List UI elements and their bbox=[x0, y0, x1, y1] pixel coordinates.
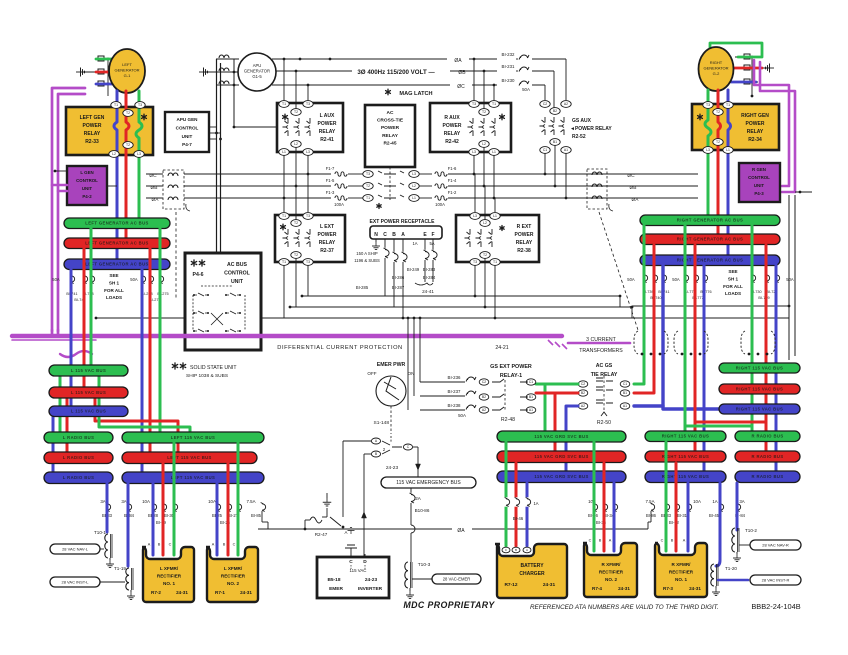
svg-text:L RADIO BUS: L RADIO BUS bbox=[63, 455, 95, 460]
svg-text:BI-85: BI-85 bbox=[251, 513, 262, 518]
terminal B2 gs ext bbox=[479, 394, 489, 400]
wire left gen feeders down red bbox=[126, 91, 129, 243]
svg-text:RIGHT 115 VAC BUS: RIGHT 115 VAC BUS bbox=[736, 406, 783, 411]
label 24-41 bbox=[415, 283, 433, 285]
wire blue rectR1 bbox=[687, 483, 690, 551]
svg-text:C1: C1 bbox=[529, 380, 533, 384]
svg-text:P4-7: P4-7 bbox=[182, 142, 192, 147]
svg-text:L2: L2 bbox=[482, 142, 486, 146]
terminal T1 upper L ext bbox=[279, 213, 289, 220]
svg-text:T3: T3 bbox=[706, 103, 710, 107]
svg-text:P4-2: P4-2 bbox=[82, 194, 92, 199]
terminal L3 right gen relay bbox=[703, 147, 713, 154]
svg-text:BI-236: BI-236 bbox=[448, 375, 461, 380]
terminal T3 L aux bbox=[303, 101, 313, 108]
svg-text:R2-34: R2-34 bbox=[748, 137, 762, 143]
svg-text:F1-4: F1-4 bbox=[448, 178, 457, 183]
bus left 115vac ØA blue bbox=[49, 406, 128, 417]
svg-text:L XFMR/: L XFMR/ bbox=[160, 566, 179, 571]
svg-text:T10-1: T10-1 bbox=[94, 530, 106, 535]
svg-text:N: N bbox=[374, 232, 378, 238]
svg-text:B1: B1 bbox=[529, 395, 533, 399]
terminal tie relay right green bbox=[620, 381, 630, 387]
terminal T1 right gen relay bbox=[723, 102, 733, 109]
svg-text:C2: C2 bbox=[482, 380, 486, 384]
ground T10-1 bbox=[109, 558, 111, 560]
svg-text:ØA: ØA bbox=[457, 528, 465, 534]
svg-text:R7-3: R7-3 bbox=[663, 586, 673, 591]
svg-text:L1: L1 bbox=[282, 150, 286, 154]
svg-text:50A: 50A bbox=[130, 277, 138, 282]
svg-text:EXT POWER RECEPTACLE: EXT POWER RECEPTACLE bbox=[370, 219, 436, 225]
wire right frame verticals bbox=[788, 195, 790, 360]
contacts right generator CT cluster bbox=[735, 56, 762, 58]
svg-text:24-31: 24-31 bbox=[618, 586, 630, 591]
wire black BI-85 to ØA bbox=[261, 511, 263, 522]
terminal T2 R aux bbox=[479, 109, 489, 116]
svg-text:POWER: POWER bbox=[318, 121, 337, 127]
terminal T2 L aux bbox=[291, 109, 301, 116]
svg-text:ØA: ØA bbox=[454, 58, 462, 64]
svg-text:B1: B1 bbox=[553, 140, 557, 144]
svg-text:CONTROL: CONTROL bbox=[176, 125, 199, 130]
svg-text:RELAY: RELAY bbox=[516, 240, 533, 246]
svg-text:T2: T2 bbox=[366, 184, 370, 188]
svg-text:R2-42: R2-42 bbox=[445, 139, 459, 145]
terminal C2 GS aux bbox=[540, 101, 550, 108]
svg-text:L3: L3 bbox=[306, 150, 310, 154]
svg-text:C: C bbox=[589, 539, 592, 543]
svg-text:A2: A2 bbox=[482, 408, 486, 412]
rectifier R xfmr no2 R7-4 bbox=[583, 543, 637, 597]
terminal tie relay right red bbox=[620, 390, 630, 396]
svg-text:150 A SHIP: 150 A SHIP bbox=[356, 251, 378, 256]
generator right G-2 bbox=[699, 47, 734, 91]
svg-text:T1: T1 bbox=[492, 102, 496, 106]
current transformers right phase bbox=[587, 169, 607, 209]
svg-text:BI-237: BI-237 bbox=[448, 389, 461, 394]
svg-text:T3: T3 bbox=[472, 102, 476, 106]
bus left 115vac wide blue bbox=[122, 472, 264, 484]
svg-text:L 115 VAC BUS: L 115 VAC BUS bbox=[71, 368, 106, 373]
bus col1 green 115 vac grd svc bbox=[497, 431, 626, 442]
wire blue left B to C bbox=[52, 416, 55, 477]
terminal T1 left gen relay bbox=[111, 102, 121, 109]
svg-text:MAG LATCH: MAG LATCH bbox=[399, 91, 432, 97]
wire red battery feed bbox=[515, 463, 518, 546]
svg-text:◄POWER RELAY: ◄POWER RELAY bbox=[570, 126, 612, 132]
svg-text:APU GEN: APU GEN bbox=[177, 117, 199, 122]
bus left 115vac ØB red bbox=[49, 387, 128, 398]
pill 28 VAC INST-R bbox=[718, 579, 748, 582]
terminal L2 L aux bbox=[291, 141, 301, 148]
svg-text:BI-284: BI-284 bbox=[423, 275, 436, 280]
svg-text:C: C bbox=[661, 539, 664, 543]
terminal T1 lower L ext bbox=[279, 259, 289, 266]
terminal L1 cross-tie bbox=[409, 195, 419, 202]
wire APU phase stubs bbox=[234, 58, 239, 60]
wire blue T1-20 feed bbox=[716, 483, 720, 566]
node ØA top label bbox=[447, 54, 469, 63]
svg-text:BI-285: BI-285 bbox=[356, 285, 369, 290]
svg-text:RELAY: RELAY bbox=[319, 129, 336, 135]
wire gs ext feeds bbox=[419, 318, 421, 382]
svg-text:24-31: 24-31 bbox=[240, 590, 252, 595]
svg-text:GENERATOR: GENERATOR bbox=[115, 68, 140, 73]
svg-text:AC GS: AC GS bbox=[596, 363, 613, 369]
wire blue T10-2 feed bbox=[736, 483, 739, 530]
svg-text:GS EXT POWER: GS EXT POWER bbox=[490, 364, 532, 370]
svg-text:R2-48: R2-48 bbox=[501, 417, 515, 423]
terminal L3 left gen relay bbox=[134, 151, 144, 158]
svg-text:R2-37: R2-37 bbox=[320, 248, 334, 254]
wire red rectR1 bbox=[675, 463, 678, 551]
svg-text:T2: T2 bbox=[294, 253, 298, 257]
svg-text:7.5A: 7.5A bbox=[246, 499, 255, 504]
wire right gen green loop bbox=[710, 43, 762, 57]
wire purple stub to current transformers bbox=[568, 342, 630, 345]
breaker column ext power C bbox=[384, 239, 386, 248]
terminal battery charger C B A bbox=[502, 547, 510, 553]
ground T1-20 bbox=[715, 586, 717, 588]
wire right gen blue lead bbox=[731, 81, 756, 84]
rectifier L xfmr no1 R7-2 bbox=[142, 547, 194, 602]
svg-text:B2: B2 bbox=[553, 109, 557, 113]
svg-text:G-1: G-1 bbox=[124, 73, 131, 78]
svg-text:50A: 50A bbox=[52, 277, 60, 282]
breaker column ext power B bbox=[393, 239, 395, 252]
wire left gen green lead bbox=[96, 59, 122, 66]
svg-text:RIGHT 115 VAC BUS: RIGHT 115 VAC BUS bbox=[662, 434, 709, 439]
svg-text:C: C bbox=[169, 543, 172, 547]
svg-text:P4-3: P4-3 bbox=[754, 191, 764, 196]
bus left generator ØB red bbox=[64, 238, 170, 249]
svg-text:L1: L1 bbox=[493, 214, 497, 218]
svg-text:NO. 1: NO. 1 bbox=[675, 577, 687, 582]
ground T1-19 bbox=[130, 590, 132, 592]
svg-text:T1: T1 bbox=[114, 103, 118, 107]
svg-text:SH 1: SH 1 bbox=[109, 280, 120, 285]
svg-text:100A: 100A bbox=[435, 202, 445, 207]
svg-text:RECTIFIER: RECTIFIER bbox=[599, 570, 624, 575]
svg-text:R7-4: R7-4 bbox=[592, 586, 602, 591]
svg-text:A: A bbox=[148, 543, 151, 547]
svg-text:T3: T3 bbox=[138, 103, 142, 107]
terminal tie relay left blue bbox=[578, 403, 588, 409]
svg-text:1A: 1A bbox=[412, 241, 417, 246]
wire R ext drops bbox=[474, 174, 476, 212]
wire green rectR2 bbox=[593, 442, 596, 551]
wire blue to T1-19 bbox=[127, 483, 130, 566]
svg-text:115 VAC GRD SVC BUS: 115 VAC GRD SVC BUS bbox=[534, 474, 588, 479]
wire red rectR2 bbox=[603, 463, 606, 551]
breaker column ext power A bbox=[402, 239, 404, 252]
wire red left A to wide bus bbox=[149, 248, 152, 457]
svg-text:D: D bbox=[363, 559, 367, 565]
svg-text:RELAY: RELAY bbox=[382, 133, 399, 139]
terminal T1 lower R ext bbox=[490, 259, 500, 266]
bus left 115vac wide green bbox=[122, 432, 264, 443]
svg-text:UNIT: UNIT bbox=[231, 279, 244, 285]
svg-text:RELAY: RELAY bbox=[747, 129, 764, 135]
svg-text:A1: A1 bbox=[529, 408, 533, 412]
wire blue rectR2 bbox=[613, 483, 616, 551]
charger battery R7-12 bbox=[495, 544, 567, 598]
svg-text:A: A bbox=[345, 530, 348, 535]
svg-text:SHIP 1038 & SUBS: SHIP 1038 & SUBS bbox=[186, 373, 228, 379]
wire right phase line ØB row bbox=[541, 185, 698, 187]
wire left phase line ØB row bbox=[146, 185, 163, 187]
svg-text:T2: T2 bbox=[716, 140, 720, 144]
wire blue rect2 A bbox=[216, 483, 219, 555]
terminal tie relay left red bbox=[578, 390, 588, 396]
label solid state unit bbox=[172, 363, 177, 369]
wire left phase line ØC row bbox=[146, 173, 163, 175]
svg-text:R RADIO BUS: R RADIO BUS bbox=[751, 474, 783, 479]
wire red right tie feeder bbox=[634, 245, 654, 393]
wire green right tie feeder bbox=[634, 225, 644, 384]
bus col3 green R radio bbox=[735, 431, 800, 442]
fuse F1-6 bbox=[419, 173, 432, 175]
svg-text:L1: L1 bbox=[492, 150, 496, 154]
svg-text:L2: L2 bbox=[483, 221, 487, 225]
svg-text:F1-2: F1-2 bbox=[448, 190, 457, 195]
terminal T1 R aux bbox=[489, 101, 499, 108]
wire green right A to col3 bbox=[751, 225, 754, 363]
svg-text:RIGHT GENERATOR AC BUS: RIGHT GENERATOR AC BUS bbox=[677, 258, 743, 263]
svg-text:BI-283: BI-283 bbox=[423, 267, 436, 272]
wire 3-phase top ØC line bbox=[272, 84, 497, 86]
svg-text:G1-5: G1-5 bbox=[252, 74, 262, 79]
relay left gen power R2-33 bbox=[66, 107, 153, 155]
svg-text:ON: ON bbox=[408, 371, 415, 376]
svg-text:L3: L3 bbox=[472, 150, 476, 154]
svg-text:OFF: OFF bbox=[367, 371, 376, 376]
svg-text:A1: A1 bbox=[623, 404, 627, 408]
current transformer brace right 1 bbox=[634, 331, 638, 354]
unit AC bus control P4-6 bbox=[185, 253, 261, 350]
svg-text:R RADIO BUS: R RADIO BUS bbox=[751, 454, 783, 459]
svg-text:LEFT: LEFT bbox=[122, 62, 132, 67]
svg-text:R2-52: R2-52 bbox=[572, 134, 586, 140]
wire green left B to C bbox=[59, 376, 62, 437]
terminal tie relay left green bbox=[578, 381, 588, 387]
terminal T1 cross-tie bbox=[363, 195, 373, 202]
svg-text:2A: 2A bbox=[415, 496, 422, 501]
svg-text:R RADIO BUS: R RADIO BUS bbox=[751, 434, 783, 439]
svg-text:NO. 2: NO. 2 bbox=[227, 581, 239, 586]
wire green battery feed bbox=[505, 442, 508, 546]
svg-text:SOLID STATE UNIT: SOLID STATE UNIT bbox=[190, 365, 237, 371]
svg-text:LEFT 115 VAC BUS: LEFT 115 VAC BUS bbox=[171, 475, 215, 480]
svg-text:5A: 5A bbox=[429, 241, 434, 246]
svg-text:RELAY-1: RELAY-1 bbox=[500, 373, 522, 379]
svg-text:BI-230: BI-230 bbox=[502, 78, 515, 83]
svg-text:24-31: 24-31 bbox=[176, 590, 188, 595]
wire black stub right control bbox=[795, 191, 812, 193]
wire right gen feeder blue bbox=[728, 90, 731, 261]
wire green rectR1 bbox=[665, 442, 668, 551]
bus col3 blue bbox=[735, 471, 800, 483]
terminal B1 GS aux bbox=[550, 139, 560, 146]
svg-text:T2: T2 bbox=[126, 143, 130, 147]
svg-text:POWER: POWER bbox=[515, 232, 534, 238]
terminal T1 L aux bbox=[279, 101, 289, 108]
node ØA right label bbox=[626, 194, 646, 202]
svg-text:RELAY: RELAY bbox=[84, 131, 101, 137]
svg-text:T1-19: T1-19 bbox=[114, 566, 126, 571]
fuse F1-2 bbox=[419, 197, 432, 199]
svg-text:LEFT GENERATOR AC BUS: LEFT GENERATOR AC BUS bbox=[85, 241, 148, 246]
svg-text:A2: A2 bbox=[581, 404, 585, 408]
svg-text:RIGHT 115 VAC BUS: RIGHT 115 VAC BUS bbox=[662, 454, 709, 459]
wire blue to T10-1 bbox=[106, 483, 109, 532]
svg-text:F1-7: F1-7 bbox=[326, 166, 335, 171]
svg-text:F: F bbox=[431, 232, 434, 238]
rectifier L xfmr no2 R7-1 bbox=[206, 547, 258, 602]
svg-text:B: B bbox=[158, 543, 161, 547]
svg-text:28 VAC NAV-R: 28 VAC NAV-R bbox=[762, 543, 789, 548]
svg-text:CHARGER: CHARGER bbox=[519, 571, 545, 577]
svg-text:RELAY: RELAY bbox=[319, 240, 336, 246]
svg-text:R2-45: R2-45 bbox=[383, 140, 396, 146]
svg-text:BI-776: BI-776 bbox=[700, 290, 711, 294]
wire blue left A to B bbox=[70, 269, 73, 411]
svg-text:FOR ALL: FOR ALL bbox=[104, 288, 124, 293]
svg-text:L XFMR/: L XFMR/ bbox=[224, 566, 243, 571]
generator left G-1 bbox=[109, 49, 145, 93]
svg-text:T10-2: T10-2 bbox=[745, 528, 757, 533]
bus L radio green bbox=[44, 432, 113, 443]
wire ØA emergency line bbox=[258, 528, 648, 530]
svg-text:50A: 50A bbox=[786, 277, 794, 282]
wire blue rect1 A bbox=[152, 483, 155, 555]
svg-text:10A: 10A bbox=[693, 499, 701, 504]
svg-text:T1: T1 bbox=[493, 260, 497, 264]
svg-text:T1: T1 bbox=[282, 102, 286, 106]
svg-text:RIGHT 115 VAC BUS: RIGHT 115 VAC BUS bbox=[736, 386, 783, 391]
svg-text:BI-729: BI-729 bbox=[758, 296, 769, 300]
bus right generator ØA blue bbox=[640, 255, 780, 266]
svg-text:L3: L3 bbox=[412, 172, 416, 176]
wire blue right tie feeder bbox=[634, 265, 663, 406]
svg-text:RECTIFIER: RECTIFIER bbox=[669, 570, 694, 575]
terminal T2 cross-tie bbox=[363, 183, 373, 190]
terminal A1 GS aux bbox=[561, 147, 571, 154]
svg-text:24-21: 24-21 bbox=[495, 345, 508, 351]
svg-text:AC BUS: AC BUS bbox=[227, 262, 247, 268]
svg-text:A: A bbox=[609, 539, 612, 543]
svg-text:A1: A1 bbox=[564, 148, 568, 152]
svg-text:R2-33: R2-33 bbox=[85, 139, 99, 145]
wire red right A to col2 bbox=[694, 245, 697, 451]
terminal T3 lower L ext bbox=[303, 259, 313, 266]
transformer T1-20 bbox=[711, 564, 714, 586]
svg-text:BI-45: BI-45 bbox=[709, 513, 720, 518]
svg-text:T3: T3 bbox=[306, 260, 310, 264]
svg-text:C: C bbox=[383, 232, 387, 238]
svg-text:L2: L2 bbox=[412, 184, 416, 188]
svg-text:L2: L2 bbox=[112, 152, 116, 156]
wire left gen feeders down green bbox=[136, 91, 142, 223]
wire left phase line ØA row bbox=[146, 197, 163, 199]
wire blue elbow to right mid bus bbox=[663, 406, 719, 409]
bus right mid green bbox=[719, 363, 800, 373]
svg-text:F1-3: F1-3 bbox=[326, 190, 335, 195]
svg-text:BI-232: BI-232 bbox=[502, 52, 515, 57]
svg-text:L AUX: L AUX bbox=[320, 113, 335, 119]
svg-text:GENERATOR: GENERATOR bbox=[704, 66, 729, 71]
svg-text:L GEN: L GEN bbox=[80, 170, 93, 175]
svg-text:10A: 10A bbox=[142, 499, 150, 504]
terminal T3 lower R ext bbox=[470, 259, 480, 266]
svg-text:B: B bbox=[223, 543, 226, 547]
wire purple leads into L gen control bbox=[52, 184, 67, 187]
terminal T2 right gen relay bbox=[713, 109, 723, 116]
transformer T10-2 bbox=[732, 528, 735, 552]
current transformer coils APU bbox=[216, 58, 234, 60]
svg-text:28 VAC INST-L: 28 VAC INST-L bbox=[61, 580, 89, 585]
terminal L2 R ext bbox=[480, 220, 490, 227]
terminal L1 R aux bbox=[489, 149, 499, 156]
wire black lead L gen control bbox=[55, 170, 67, 172]
svg-text:EMER: EMER bbox=[329, 586, 343, 592]
svg-text:S1-148: S1-148 bbox=[374, 420, 390, 426]
svg-text:T1: T1 bbox=[366, 196, 370, 200]
terminal B1 gs ext bbox=[526, 394, 536, 400]
wire red rect1 B bbox=[162, 463, 165, 555]
current transformers left phase bbox=[163, 170, 184, 209]
svg-text:G-2: G-2 bbox=[713, 71, 720, 76]
svg-text:L3: L3 bbox=[706, 148, 710, 152]
wire purple feeder right bbox=[754, 60, 789, 186]
svg-text:RELAY: RELAY bbox=[444, 131, 461, 137]
terminal A2 gs ext bbox=[479, 407, 489, 413]
svg-text:TRANSFORMERS: TRANSFORMERS bbox=[579, 348, 623, 354]
svg-text:B1: B1 bbox=[623, 391, 627, 395]
node ØC right label bbox=[622, 170, 642, 178]
svg-text:REFERENCED ATA NUMBERS ARE VAL: REFERENCED ATA NUMBERS ARE VALID TO THE … bbox=[530, 604, 719, 611]
svg-text:GENERATOR: GENERATOR bbox=[244, 68, 270, 73]
wire blue right A to col2 bbox=[703, 265, 706, 471]
svg-text:R EXT: R EXT bbox=[517, 224, 532, 230]
svg-text:A: A bbox=[212, 543, 215, 547]
terminal T2 lower left gen relay bbox=[123, 142, 133, 149]
svg-text:T2: T2 bbox=[294, 221, 298, 225]
wire red right A to col3 bbox=[765, 245, 768, 384]
bus right mid red bbox=[719, 384, 800, 394]
wire green left A to B bbox=[90, 228, 93, 370]
svg-text:A2: A2 bbox=[564, 102, 568, 106]
svg-text:C1: C1 bbox=[543, 148, 547, 152]
svg-text:R XFMR/: R XFMR/ bbox=[672, 562, 692, 567]
wire inverter D to switch bbox=[364, 554, 366, 557]
svg-text:BI-46: BI-46 bbox=[513, 516, 524, 521]
svg-text:BI-238: BI-238 bbox=[448, 403, 461, 408]
wire dashed link CT to transformers bbox=[599, 212, 638, 330]
svg-text:RIGHT GENERATOR AC BUS: RIGHT GENERATOR AC BUS bbox=[677, 237, 743, 242]
wire right gen feeder green bbox=[705, 90, 711, 220]
bus col2 green right 115 vac bbox=[645, 431, 726, 442]
terminal T3 upper L ext bbox=[303, 213, 313, 220]
pill 28 VAC INST-L bbox=[96, 581, 125, 583]
node ØA bottom label bbox=[452, 524, 472, 533]
svg-text:UNIT: UNIT bbox=[754, 183, 765, 188]
terminal C2 gs ext bbox=[479, 379, 489, 385]
svg-text:R GEN: R GEN bbox=[752, 167, 766, 172]
svg-text:L 115 VAC BUS: L 115 VAC BUS bbox=[71, 409, 106, 414]
svg-text:BBB2-24-104B: BBB2-24-104B bbox=[751, 602, 800, 611]
